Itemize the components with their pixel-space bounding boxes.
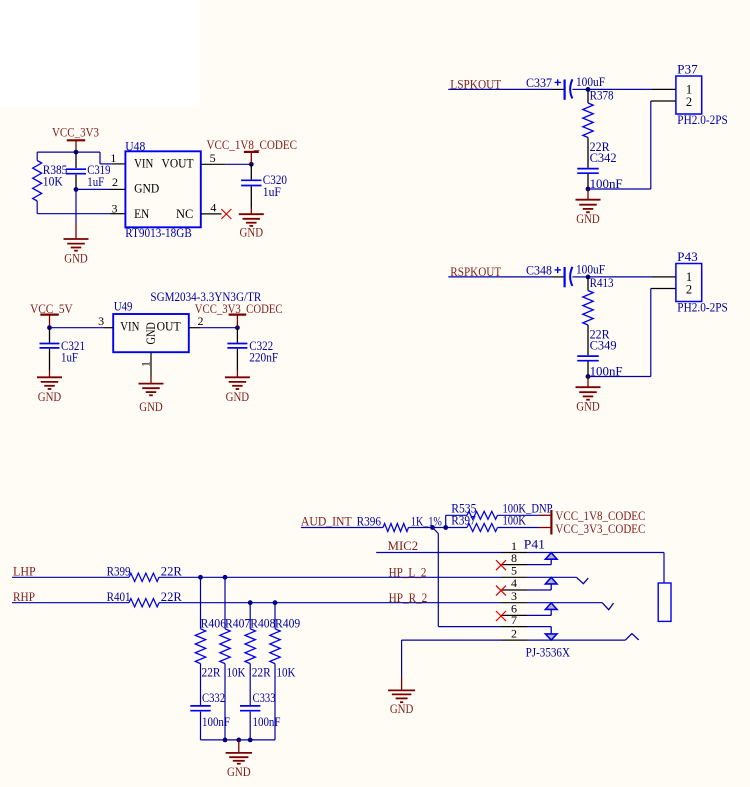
svg-text:3: 3 (98, 314, 104, 328)
svg-text:100nF: 100nF (253, 715, 281, 729)
svg-text:220nF: 220nF (249, 351, 278, 365)
svg-text:P41: P41 (524, 538, 545, 552)
svg-text:GND: GND (390, 701, 414, 716)
svg-text:R407: R407 (225, 616, 250, 630)
svg-text:EN: EN (134, 206, 150, 221)
svg-text:1uF: 1uF (61, 351, 78, 365)
svg-text:1: 1 (138, 361, 152, 367)
svg-text:HP_R_2: HP_R_2 (389, 590, 428, 605)
svg-text:100uF: 100uF (576, 262, 605, 276)
svg-text:2: 2 (686, 283, 692, 297)
svg-text:2: 2 (686, 95, 692, 109)
svg-text:GND: GND (38, 389, 62, 404)
svg-text:C333: C333 (253, 691, 276, 705)
svg-text:R409: R409 (275, 616, 300, 630)
svg-text:PH2.0-2PS: PH2.0-2PS (677, 300, 728, 314)
svg-text:22R: 22R (202, 665, 222, 679)
svg-text:GND: GND (227, 764, 251, 779)
svg-text:GND: GND (240, 225, 264, 240)
svg-text:C348: C348 (526, 264, 552, 278)
svg-text:P37: P37 (677, 63, 698, 77)
svg-text:MIC2: MIC2 (388, 538, 419, 553)
svg-text:2: 2 (198, 314, 204, 328)
svg-text:22R: 22R (161, 590, 183, 604)
svg-text:R408: R408 (250, 616, 275, 630)
svg-text:HP_L_2: HP_L_2 (389, 564, 427, 579)
svg-text:GND: GND (576, 399, 600, 414)
svg-text:VOUT: VOUT (162, 155, 194, 170)
svg-text:GND: GND (226, 389, 250, 404)
svg-text:100nF: 100nF (202, 715, 230, 729)
svg-text:GND: GND (139, 399, 163, 414)
svg-text:R401: R401 (107, 590, 131, 604)
svg-text:OUT: OUT (157, 318, 181, 333)
svg-text:AUD_INT: AUD_INT (301, 515, 352, 529)
svg-text:PJ-3536X: PJ-3536X (526, 646, 570, 660)
svg-text:C349: C349 (590, 339, 617, 353)
svg-text:100uF: 100uF (576, 75, 605, 89)
svg-text:1uF: 1uF (263, 185, 281, 199)
svg-text:GND: GND (134, 181, 159, 196)
svg-text:R399: R399 (107, 565, 131, 579)
svg-text:GND: GND (576, 211, 600, 226)
svg-text:R378: R378 (590, 89, 614, 103)
svg-text:10K: 10K (43, 175, 63, 189)
svg-text:PH2.0-2PS: PH2.0-2PS (677, 113, 728, 127)
svg-text:R413: R413 (590, 276, 614, 290)
svg-text:GND: GND (64, 251, 88, 266)
svg-text:1K_1%: 1K_1% (411, 515, 442, 529)
svg-text:2: 2 (511, 627, 517, 641)
svg-text:R535: R535 (451, 501, 476, 515)
svg-text:10K: 10K (227, 665, 246, 679)
svg-text:VCC_3V3: VCC_3V3 (52, 124, 99, 139)
svg-text:R406: R406 (201, 616, 227, 630)
svg-text:C337: C337 (526, 76, 552, 90)
svg-text:1uF: 1uF (87, 175, 104, 189)
svg-text:4: 4 (210, 200, 216, 214)
svg-text:RT9013-18GB: RT9013-18GB (125, 225, 192, 240)
svg-text:2: 2 (112, 175, 118, 189)
svg-text:10K: 10K (277, 665, 296, 679)
svg-text:U48: U48 (125, 139, 145, 154)
svg-text:1: 1 (110, 151, 116, 165)
svg-text:VCC_3V3_CODEC: VCC_3V3_CODEC (555, 522, 645, 536)
svg-text:5: 5 (210, 151, 216, 165)
svg-text:22R: 22R (252, 665, 272, 679)
svg-text:C332: C332 (202, 691, 225, 705)
svg-text:LHP: LHP (13, 564, 36, 579)
svg-text:VIN: VIN (120, 318, 140, 333)
svg-text:3: 3 (112, 202, 118, 216)
svg-text:22R: 22R (161, 565, 183, 579)
svg-text:R396: R396 (357, 515, 382, 529)
svg-text:GND: GND (144, 322, 158, 344)
svg-text:RHP: RHP (13, 589, 35, 604)
svg-text:U49: U49 (114, 299, 132, 314)
svg-text:C342: C342 (590, 151, 617, 165)
svg-text:VIN: VIN (134, 155, 154, 170)
svg-text:VCC_1V8_CODEC: VCC_1V8_CODEC (207, 138, 298, 152)
svg-text:P43: P43 (677, 250, 698, 264)
svg-text:100K_DNP: 100K_DNP (503, 501, 553, 515)
svg-text:NC: NC (176, 206, 193, 221)
svg-text:VCC_1V8_CODEC: VCC_1V8_CODEC (555, 509, 645, 523)
